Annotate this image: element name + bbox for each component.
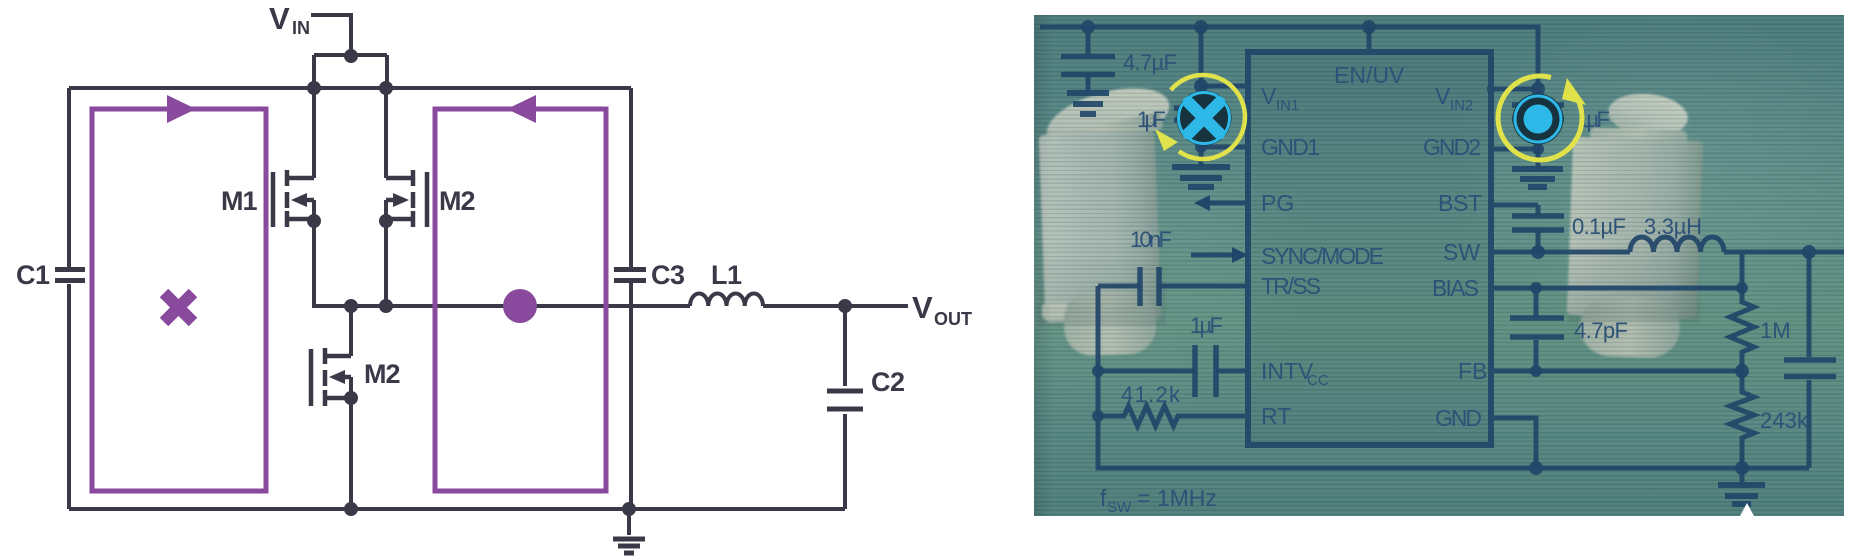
svg-text:EN/UV: EN/UV <box>1334 62 1405 88</box>
svg-text:V: V <box>269 1 290 36</box>
svg-text:FB: FB <box>1458 358 1487 384</box>
svg-text:C3: C3 <box>651 260 685 290</box>
svg-text:f: f <box>1100 485 1107 511</box>
svg-text:GND: GND <box>1435 405 1482 431</box>
svg-text:PG: PG <box>1261 190 1294 216</box>
svg-text:M1: M1 <box>221 186 257 216</box>
svg-text:4.7pF: 4.7pF <box>1574 318 1628 343</box>
svg-text:SW: SW <box>1107 499 1132 516</box>
svg-text:OUT: OUT <box>934 309 972 329</box>
svg-text:C1: C1 <box>16 260 50 290</box>
svg-text:CC: CC <box>1307 372 1329 389</box>
svg-text:= 1MHz: = 1MHz <box>1137 485 1217 511</box>
svg-text:0.1µF: 0.1µF <box>1572 214 1626 239</box>
svg-text:GND1: GND1 <box>1261 134 1320 160</box>
svg-text:M2: M2 <box>439 186 475 216</box>
svg-text:IN: IN <box>292 18 310 38</box>
svg-text:L1: L1 <box>711 260 742 290</box>
svg-text:1M: 1M <box>1760 318 1791 343</box>
svg-text:41.2k: 41.2k <box>1121 382 1181 407</box>
svg-text:IN2: IN2 <box>1450 97 1473 114</box>
svg-text:1µF: 1µF <box>1137 107 1166 132</box>
svg-text:GND2: GND2 <box>1423 134 1481 160</box>
svg-text:V: V <box>1435 83 1451 109</box>
svg-text:SW: SW <box>1443 239 1480 265</box>
svg-text:BIAS: BIAS <box>1432 275 1479 301</box>
svg-text:10nF: 10nF <box>1130 227 1172 252</box>
svg-text:243k: 243k <box>1760 408 1809 433</box>
svg-text:3.3µH: 3.3µH <box>1644 214 1702 239</box>
svg-text:V: V <box>1261 83 1277 109</box>
svg-text:V: V <box>912 290 933 325</box>
svg-text:SYNC/MODE: SYNC/MODE <box>1261 243 1384 269</box>
svg-text:M2: M2 <box>364 359 400 389</box>
svg-text:1µF: 1µF <box>1190 313 1223 338</box>
svg-text:TR/SS: TR/SS <box>1261 273 1321 299</box>
svg-text:RT: RT <box>1261 403 1291 429</box>
svg-text:C2: C2 <box>871 367 905 397</box>
svg-text:BST: BST <box>1438 190 1482 216</box>
svg-text:4.7µF: 4.7µF <box>1123 50 1177 75</box>
svg-text:IN1: IN1 <box>1276 97 1299 114</box>
